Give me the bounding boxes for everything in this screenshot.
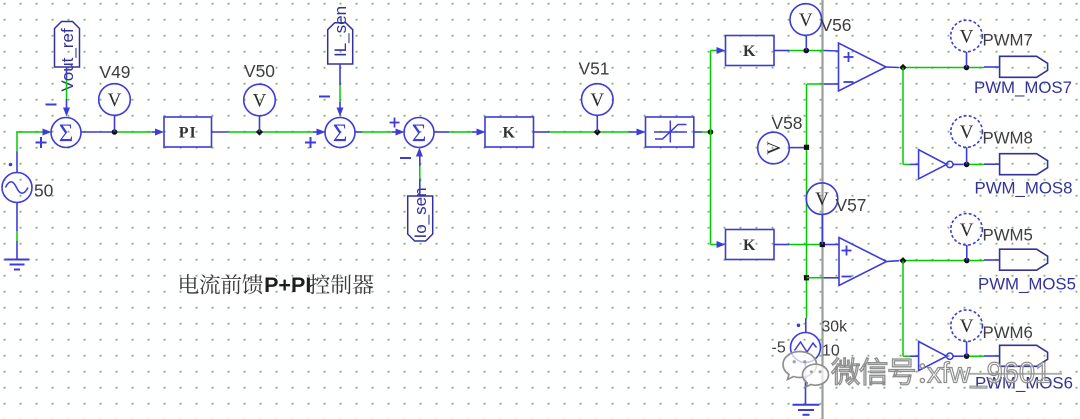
svg-text:PWM_MOS7: PWM_MOS7: [974, 78, 1072, 97]
voltmeter PWM7: [951, 20, 983, 67]
gain block K (top): [726, 36, 775, 66]
wire: vertical split rail to both K gains: [711, 47, 726, 248]
svg-text:P+PI: P+PI: [264, 273, 311, 297]
grey page-boundary vertical line: [821, 0, 823, 419]
sine voltage source 50Hz: [2, 163, 32, 203]
ground (left): [5, 260, 30, 270]
output tag PWM_MOS6: [1000, 345, 1048, 366]
voltmeter PWM8: [951, 116, 983, 165]
svg-text:Σ: Σ: [412, 120, 427, 147]
wire: PI to summer S2: [212, 129, 326, 136]
svg-text:V: V: [960, 27, 974, 48]
wire: Io_sen to summer S3 (inverting): [416, 148, 423, 197]
wire: carrier rail to CMP2 - input: [807, 277, 840, 279]
svg-text:-5: -5: [772, 340, 786, 357]
junction node at PWM5 meter: [964, 258, 970, 264]
triangle-wave carrier source: [791, 324, 821, 363]
voltmeter V58 (rotated): [758, 132, 804, 164]
junction node at V49: [112, 129, 118, 135]
wire: K to limiter: [534, 129, 646, 136]
wire: Vout_ref to summer S1 (inverting): [63, 67, 70, 117]
net label Io_sen: [408, 187, 433, 241]
output tag PWM_MOS8: [1000, 154, 1048, 175]
svg-text:IL_sen: IL_sen: [331, 6, 350, 57]
svg-text:V: V: [815, 189, 829, 210]
wire: S3 to gain K: [434, 129, 486, 136]
voltmeter V56: [790, 4, 822, 51]
svg-text:V: V: [253, 91, 267, 112]
svg-text:V: V: [960, 220, 974, 241]
svg-text:V50: V50: [244, 61, 275, 81]
voltmeter V57: [806, 183, 838, 245]
wire: CMP1 output: [886, 66, 964, 69]
svg-text:V: V: [799, 10, 813, 31]
plus sign inside CMP2: [842, 250, 852, 252]
wire: CMP2 output: [887, 261, 965, 262]
wire: IL_sen to summer S2 (inverting): [337, 64, 344, 117]
wire: S1 to PI block: [81, 129, 164, 136]
wire: sine source to summer S1: [16, 129, 51, 173]
net label IL_sen: [328, 6, 353, 64]
svg-text:V: V: [960, 316, 974, 337]
wire: sine source to ground: [16, 203, 18, 260]
wire: N2 to PWM_MOS6 tag: [953, 355, 1000, 357]
gain block K (main path): [485, 117, 534, 147]
svg-text:PI: PI: [179, 125, 197, 142]
wire: CMP1 output down to NOT gate N1: [903, 68, 919, 165]
svg-text:PWM_MOS5: PWM_MOS5: [978, 275, 1076, 294]
voltmeter V50: [244, 84, 276, 132]
wire: limiter output to split node: [694, 131, 711, 133]
svg-text:V: V: [590, 90, 604, 111]
junction node at V56: [804, 48, 810, 54]
wire: N1 to PWM_MOS8 tag: [953, 163, 1000, 165]
svg-text:K: K: [503, 125, 516, 142]
junction node at PWM8 meter: [964, 162, 970, 168]
svg-text:V: V: [108, 90, 122, 111]
wire: K bottom to comparator CMP2 + input: [774, 244, 839, 246]
watermark strike line: [968, 373, 1062, 375]
junction at CMP2 output: [899, 257, 906, 264]
voltmeter V49: [99, 84, 131, 132]
net label Vout_ref: [55, 22, 80, 92]
minus sign at S2 top input: [319, 96, 330, 98]
output tag PWM_MOS7: [1000, 56, 1048, 77]
comparator CMP2: [839, 238, 887, 286]
NOT gate N2: [919, 342, 953, 371]
junction node at V57: [820, 242, 825, 247]
wire: S2 to summer S3: [355, 129, 405, 136]
watermark: 微信号：xfw_9601: [832, 358, 1052, 390]
gain block K (bottom): [726, 230, 775, 260]
wire: triangle carrier rail (vertical): [805, 84, 808, 333]
svg-text:V49: V49: [100, 62, 131, 82]
svg-text:30k: 30k: [822, 319, 848, 336]
svg-text:V: V: [764, 141, 785, 155]
summer S1: [51, 118, 81, 148]
svg-text:PWM7: PWM7: [983, 31, 1033, 50]
junction: CMP2 - branch on carrier rail: [804, 275, 809, 280]
plus sign at S2 left input: [305, 142, 316, 144]
minus sign at S3 bottom input: [400, 157, 411, 159]
junction node at V50: [256, 128, 263, 135]
svg-text:V56: V56: [821, 15, 852, 35]
svg-text:Vout_ref: Vout_ref: [58, 28, 77, 92]
wire: K top to comparator CMP1 + input: [774, 50, 839, 53]
junction node at V51: [594, 128, 601, 135]
junction node at PWM6 meter: [964, 353, 970, 359]
svg-text:PWM5: PWM5: [983, 225, 1033, 244]
watermark: WeChat logo: [783, 352, 829, 387]
minus sign inside CMP2: [842, 276, 852, 278]
svg-text:10: 10: [822, 342, 840, 359]
plus sign inside CMP1: [844, 56, 854, 58]
svg-text:50: 50: [34, 181, 53, 201]
svg-text:Σ: Σ: [333, 120, 348, 147]
summer S2: [325, 118, 355, 148]
plus sign at S1 left input: [36, 142, 47, 144]
limiter block: [646, 117, 694, 147]
NOT gate N1: [919, 150, 953, 179]
PI controller block: [164, 117, 212, 147]
output tag PWM_MOS5: [1000, 249, 1048, 270]
wire: to PWM_MOS7 tag: [969, 66, 1000, 69]
svg-text:V: V: [960, 122, 974, 143]
wire: carrier rail to CMP1 - input: [807, 83, 839, 85]
junction at CMP1 output: [899, 64, 906, 71]
svg-text:PWM8: PWM8: [983, 129, 1033, 148]
voltmeter PWM5: [951, 214, 983, 261]
svg-text:PWM6: PWM6: [983, 323, 1033, 342]
schematic title: 电流前馈P+PI控制器: [180, 273, 373, 297]
svg-text:V58: V58: [772, 113, 803, 133]
comparator CMP1: [839, 43, 887, 91]
svg-text:V57: V57: [836, 195, 867, 215]
svg-text:K: K: [743, 237, 756, 254]
svg-text:Io_sen: Io_sen: [411, 187, 430, 238]
minus sign inside CMP1: [844, 81, 854, 83]
voltmeter PWM6: [951, 310, 983, 356]
voltmeter V51: [582, 84, 614, 132]
svg-text:PWM_MOS8: PWM_MOS8: [975, 179, 1073, 198]
junction node at PWM7 meter: [964, 65, 970, 71]
svg-text:Σ: Σ: [59, 120, 74, 147]
junction node after limiter: [708, 129, 714, 135]
ground (carrier): [793, 405, 820, 415]
summer S3: [404, 118, 434, 148]
plus sign at S3 left input: [390, 122, 400, 124]
wire: CMP2 output down to NOT gate N2: [903, 261, 919, 357]
wire: carrier source to ground: [805, 363, 807, 405]
wire: to PWM_MOS5 tag: [969, 259, 1000, 262]
minus sign at S1 top input: [46, 104, 57, 106]
svg-text:V51: V51: [579, 59, 610, 79]
svg-text:K: K: [743, 43, 756, 60]
junction: V58 tap on carrier rail: [804, 145, 809, 150]
